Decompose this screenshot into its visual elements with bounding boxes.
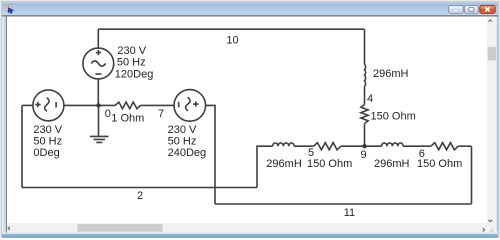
junction node 0 bbox=[96, 103, 100, 107]
h scrollbar thumb bbox=[78, 224, 163, 232]
resistor R1 1 Ohm horizontal bbox=[115, 102, 140, 109]
V2 sine (rotated) bbox=[45, 98, 49, 112]
resistor R2 150 Ohm vertical bbox=[361, 105, 368, 124]
svg-text:150 Ohm: 150 Ohm bbox=[417, 158, 462, 170]
V1 sine bbox=[91, 61, 105, 66]
wire: right side drop to net 11 bbox=[471, 146, 473, 204]
V3 plus sign bbox=[193, 101, 198, 106]
svg-text:10: 10 bbox=[226, 35, 238, 47]
V1 minus sign bbox=[96, 73, 102, 75]
ground stem bbox=[98, 105, 100, 135]
svg-text:230 V: 230 V bbox=[33, 124, 62, 136]
svg-text:120Deg: 120Deg bbox=[115, 69, 154, 81]
wire: net 2 horizontal bbox=[22, 187, 257, 189]
svg-text:230 V: 230 V bbox=[117, 45, 146, 57]
titlebar app icon bbox=[6, 5, 14, 14]
maximize button bbox=[464, 6, 478, 14]
title bar bbox=[2, 2, 498, 16]
svg-text:11: 11 bbox=[344, 207, 355, 219]
svg-text:50 Hz: 50 Hz bbox=[117, 56, 146, 68]
svg-text:296mH: 296mH bbox=[373, 68, 409, 80]
wire: between L2 and R2 (node 4) bbox=[364, 86, 366, 104]
wire: V3 right lead drop bbox=[206, 105, 215, 204]
inductor L3 296mH horizontal bbox=[382, 143, 404, 146]
wire: V1 bottom lead to node 0 bbox=[97, 79, 99, 106]
svg-text:1 Ohm: 1 Ohm bbox=[111, 112, 144, 124]
wire: bottom net 11 horizontal bbox=[215, 203, 472, 205]
wire: V2 left lead drop bbox=[21, 105, 23, 187]
V1 plus sign bbox=[96, 50, 101, 55]
wire: V2 left lead bbox=[22, 104, 33, 106]
V3 sine (rotated) bbox=[186, 97, 190, 111]
svg-text:0Deg: 0Deg bbox=[33, 147, 59, 159]
svg-text:7: 7 bbox=[158, 108, 164, 120]
svg-text:296mH: 296mH bbox=[266, 158, 302, 170]
AC source V1 circle bbox=[83, 48, 114, 79]
svg-text:240Deg: 240Deg bbox=[168, 147, 207, 159]
svg-text:50 Hz: 50 Hz bbox=[33, 135, 62, 147]
title bottom dark line bbox=[2, 15, 498, 17]
right frame bbox=[496, 15, 499, 233]
left frame bbox=[2, 15, 7, 233]
v scrollbar up arrow bbox=[488, 20, 492, 22]
v scrollbar down arrow bbox=[488, 220, 492, 222]
resize grip bbox=[490, 228, 494, 232]
scrollbar corner bbox=[487, 223, 497, 233]
V2 plus sign bbox=[35, 102, 40, 107]
wire: R1 to V3 bbox=[141, 104, 175, 106]
AC source V2 circle bbox=[33, 90, 64, 121]
svg-text:50 Hz: 50 Hz bbox=[168, 135, 197, 147]
h scrollbar left arrow bbox=[8, 227, 10, 230]
svg-text:150 Ohm: 150 Ohm bbox=[371, 111, 416, 123]
resistor R3 150 Ohm horizontal bbox=[314, 143, 342, 150]
inductor L2 296mH vertical bbox=[365, 64, 366, 86]
svg-text:150 Ohm: 150 Ohm bbox=[307, 158, 352, 170]
V2 minus sign (rotated) bbox=[55, 102, 57, 107]
bottom frame bbox=[2, 232, 498, 239]
wire: V2 right lead to node 0 bbox=[64, 104, 115, 106]
AC source V3 circle bbox=[174, 90, 206, 122]
wire: L3 to R4 bbox=[403, 145, 431, 147]
wire: branch left corner node 2 riser bbox=[257, 146, 273, 187]
wire: R2 to node 9 bbox=[364, 124, 366, 147]
wire: node10 vertical down to L2 bbox=[364, 29, 366, 64]
wire: L1 to R3 bbox=[294, 145, 313, 147]
svg-text:0: 0 bbox=[105, 108, 111, 120]
wire: V1 top lead bbox=[97, 29, 99, 48]
resistor R4 150 Ohm horizontal bbox=[431, 143, 459, 150]
minimize button bbox=[449, 6, 464, 14]
svg-text:2: 2 bbox=[137, 190, 143, 202]
close button bbox=[480, 5, 495, 13]
v scrollbar thumb bbox=[488, 47, 496, 61]
svg-text:4: 4 bbox=[367, 93, 373, 105]
h scrollbar track bbox=[7, 223, 487, 233]
wire: top net 10 horizontal bbox=[98, 28, 364, 30]
v scrollbar track bbox=[487, 17, 497, 223]
junction node 9 bbox=[362, 144, 366, 148]
wire: R3 to node 9 bbox=[341, 145, 382, 147]
h scrollbar right arrow bbox=[483, 228, 485, 231]
V3 minus sign (rotated) bbox=[178, 102, 180, 107]
canvas client border dark left bbox=[6, 17, 7, 233]
svg-text:296mH: 296mH bbox=[374, 158, 410, 170]
svg-text:230 V: 230 V bbox=[168, 124, 197, 136]
wire: R4 to right corner bbox=[458, 145, 471, 147]
svg-text:9: 9 bbox=[361, 149, 367, 161]
inductor L1 296mH horizontal bbox=[273, 143, 295, 146]
ground bars bbox=[90, 136, 109, 142]
